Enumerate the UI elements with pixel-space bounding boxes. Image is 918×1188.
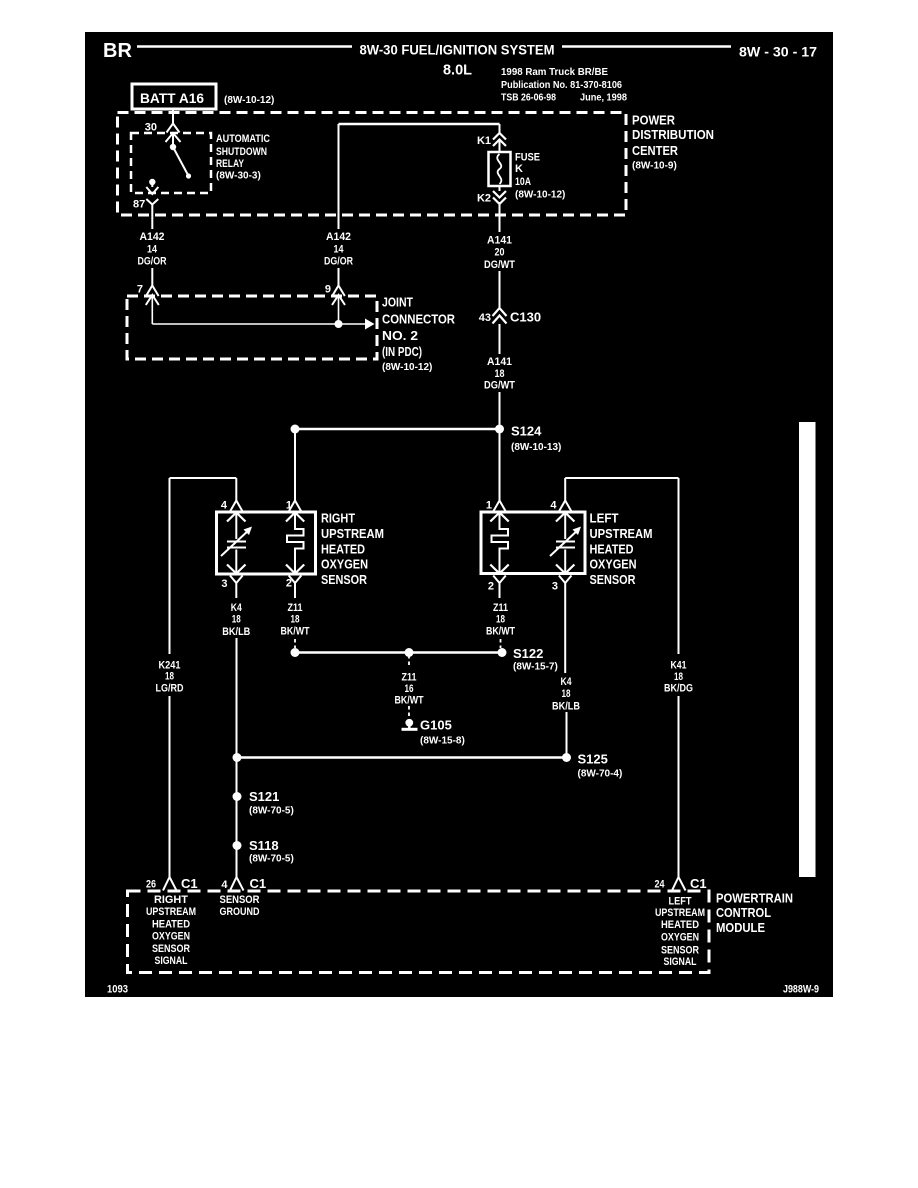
svg-text:C1: C1 — [250, 876, 267, 891]
svg-text:C130: C130 — [510, 310, 541, 325]
svg-text:TSB 26-06-98: TSB 26-06-98 — [501, 93, 556, 104]
svg-text:UPSTREAM: UPSTREAM — [321, 526, 384, 541]
svg-text:4: 4 — [221, 879, 228, 891]
svg-text:10A: 10A — [515, 176, 531, 188]
svg-text:20: 20 — [495, 247, 505, 259]
svg-text:SENSOR: SENSOR — [220, 894, 260, 906]
svg-text:BK/LB: BK/LB — [222, 626, 250, 638]
svg-text:18: 18 — [165, 671, 174, 683]
svg-text:C1: C1 — [690, 876, 707, 891]
svg-text:Z11: Z11 — [402, 672, 417, 684]
svg-text:SENSOR: SENSOR — [152, 943, 190, 955]
svg-text:SIGNAL: SIGNAL — [664, 956, 697, 968]
svg-text:S122: S122 — [513, 646, 543, 661]
svg-text:(8W-30-3): (8W-30-3) — [216, 171, 261, 182]
svg-text:1093: 1093 — [107, 984, 128, 996]
svg-text:24: 24 — [655, 879, 666, 891]
svg-text:3: 3 — [221, 578, 227, 590]
svg-text:FUSE: FUSE — [515, 152, 540, 164]
svg-text:(8W-70-5): (8W-70-5) — [249, 854, 294, 865]
svg-text:K2: K2 — [477, 193, 491, 205]
svg-text:AUTOMATIC: AUTOMATIC — [216, 133, 270, 145]
svg-text:BR: BR — [103, 40, 132, 62]
svg-text:2: 2 — [286, 578, 292, 590]
svg-text:DG/OR: DG/OR — [138, 256, 167, 268]
svg-text:1: 1 — [286, 500, 292, 512]
svg-text:4: 4 — [221, 500, 228, 512]
svg-text:SHUTDOWN: SHUTDOWN — [216, 146, 267, 158]
svg-text:GROUND: GROUND — [220, 906, 260, 918]
svg-text:RIGHT: RIGHT — [321, 511, 355, 526]
svg-text:S118: S118 — [249, 838, 279, 853]
svg-text:HEATED: HEATED — [321, 542, 365, 557]
svg-text:8W - 30 - 17: 8W - 30 - 17 — [739, 44, 817, 60]
svg-text:UPSTREAM: UPSTREAM — [590, 526, 653, 541]
svg-text:DG/OR: DG/OR — [324, 256, 353, 268]
svg-text:K: K — [515, 163, 523, 175]
svg-text:BK/DG: BK/DG — [664, 683, 693, 695]
svg-text:3: 3 — [552, 581, 558, 593]
svg-text:SIGNAL: SIGNAL — [155, 955, 188, 967]
svg-text:16: 16 — [405, 683, 414, 695]
svg-text:(8W-15-8): (8W-15-8) — [420, 736, 465, 747]
svg-text:NO. 2: NO. 2 — [382, 328, 418, 343]
svg-text:(8W-10-12): (8W-10-12) — [224, 95, 274, 106]
svg-text:OXYGEN: OXYGEN — [590, 557, 637, 572]
svg-text:UPSTREAM: UPSTREAM — [655, 907, 705, 919]
svg-text:S124: S124 — [511, 424, 542, 439]
svg-text:BK/WT: BK/WT — [281, 625, 310, 637]
svg-text:8W-30 FUEL/IGNITION SYSTEM: 8W-30 FUEL/IGNITION SYSTEM — [360, 42, 555, 58]
svg-text:S125: S125 — [578, 752, 608, 767]
svg-text:14: 14 — [334, 244, 345, 256]
svg-text:RELAY: RELAY — [216, 158, 245, 170]
svg-text:BK/LB: BK/LB — [552, 700, 580, 712]
svg-text:87: 87 — [133, 199, 145, 211]
svg-text:1998 Ram Truck BR/BE: 1998 Ram Truck BR/BE — [501, 67, 608, 78]
svg-text:June, 1998: June, 1998 — [580, 93, 627, 104]
svg-text:30: 30 — [145, 122, 157, 134]
svg-text:MODULE: MODULE — [716, 920, 765, 935]
svg-text:BK/WT: BK/WT — [395, 695, 424, 707]
svg-text:UPSTREAM: UPSTREAM — [146, 906, 196, 918]
svg-text:A141: A141 — [487, 356, 512, 368]
svg-text:K4: K4 — [231, 602, 243, 614]
svg-text:G105: G105 — [420, 718, 452, 733]
svg-text:Z11: Z11 — [493, 602, 508, 614]
svg-text:OXYGEN: OXYGEN — [661, 932, 699, 944]
svg-text:(8W-10-12): (8W-10-12) — [515, 190, 565, 201]
svg-text:POWERTRAIN: POWERTRAIN — [716, 890, 793, 905]
svg-text:OXYGEN: OXYGEN — [321, 557, 368, 572]
svg-text:2: 2 — [488, 581, 494, 593]
svg-text:1: 1 — [486, 500, 492, 512]
svg-text:(IN PDC): (IN PDC) — [382, 344, 422, 359]
svg-text:(8W-15-7): (8W-15-7) — [513, 662, 558, 673]
svg-text:DISTRIBUTION: DISTRIBUTION — [632, 127, 714, 142]
svg-text:A142: A142 — [140, 231, 165, 243]
svg-text:DG/WT: DG/WT — [484, 259, 515, 271]
svg-text:(8W-70-5): (8W-70-5) — [249, 806, 294, 817]
svg-text:SENSOR: SENSOR — [321, 572, 368, 587]
svg-text:RIGHT: RIGHT — [154, 894, 188, 906]
svg-text:LEFT: LEFT — [669, 896, 692, 908]
svg-text:K4: K4 — [561, 676, 573, 688]
svg-text:OXYGEN: OXYGEN — [152, 931, 190, 943]
svg-text:C1: C1 — [181, 876, 198, 891]
svg-text:SENSOR: SENSOR — [590, 572, 637, 587]
svg-text:CONTROL: CONTROL — [716, 905, 771, 920]
svg-text:CENTER: CENTER — [632, 143, 679, 158]
svg-text:(8W-10-13): (8W-10-13) — [511, 442, 561, 453]
svg-text:JOINT: JOINT — [382, 295, 413, 310]
svg-text:BK/WT: BK/WT — [486, 625, 515, 637]
svg-text:Z11: Z11 — [288, 602, 303, 614]
svg-text:(8W-10-12): (8W-10-12) — [382, 362, 432, 373]
svg-text:9: 9 — [325, 284, 331, 296]
svg-text:K1: K1 — [477, 135, 491, 147]
svg-text:Publication No. 81-370-8106: Publication No. 81-370-8106 — [501, 80, 622, 91]
svg-text:18: 18 — [232, 614, 241, 626]
svg-text:LG/RD: LG/RD — [156, 683, 184, 695]
svg-text:8.0L: 8.0L — [443, 62, 472, 79]
svg-text:7: 7 — [137, 284, 143, 296]
svg-text:HEATED: HEATED — [590, 542, 634, 557]
svg-text:K41: K41 — [671, 660, 687, 672]
svg-text:(8W-70-4): (8W-70-4) — [578, 769, 623, 780]
svg-text:SENSOR: SENSOR — [661, 944, 699, 956]
svg-text:4: 4 — [550, 500, 557, 512]
svg-text:A141: A141 — [487, 235, 512, 247]
svg-text:14: 14 — [147, 244, 158, 256]
svg-text:LEFT: LEFT — [590, 511, 619, 526]
svg-text:POWER: POWER — [632, 113, 676, 128]
svg-text:18: 18 — [495, 368, 505, 380]
svg-text:HEATED: HEATED — [152, 918, 190, 930]
svg-text:DG/WT: DG/WT — [484, 380, 515, 392]
svg-text:BATT A16: BATT A16 — [140, 90, 204, 106]
svg-text:18: 18 — [562, 688, 571, 700]
svg-text:18: 18 — [674, 671, 683, 683]
svg-text:43: 43 — [479, 312, 491, 324]
svg-text:CONNECTOR: CONNECTOR — [382, 312, 456, 327]
svg-text:18: 18 — [496, 614, 505, 626]
svg-text:18: 18 — [291, 614, 300, 626]
svg-text:26: 26 — [146, 879, 156, 891]
svg-text:S121: S121 — [249, 789, 279, 804]
svg-text:J988W-9: J988W-9 — [783, 983, 819, 995]
svg-text:HEATED: HEATED — [661, 919, 699, 931]
svg-text:A142: A142 — [326, 231, 351, 243]
svg-text:(8W-10-9): (8W-10-9) — [632, 161, 677, 172]
